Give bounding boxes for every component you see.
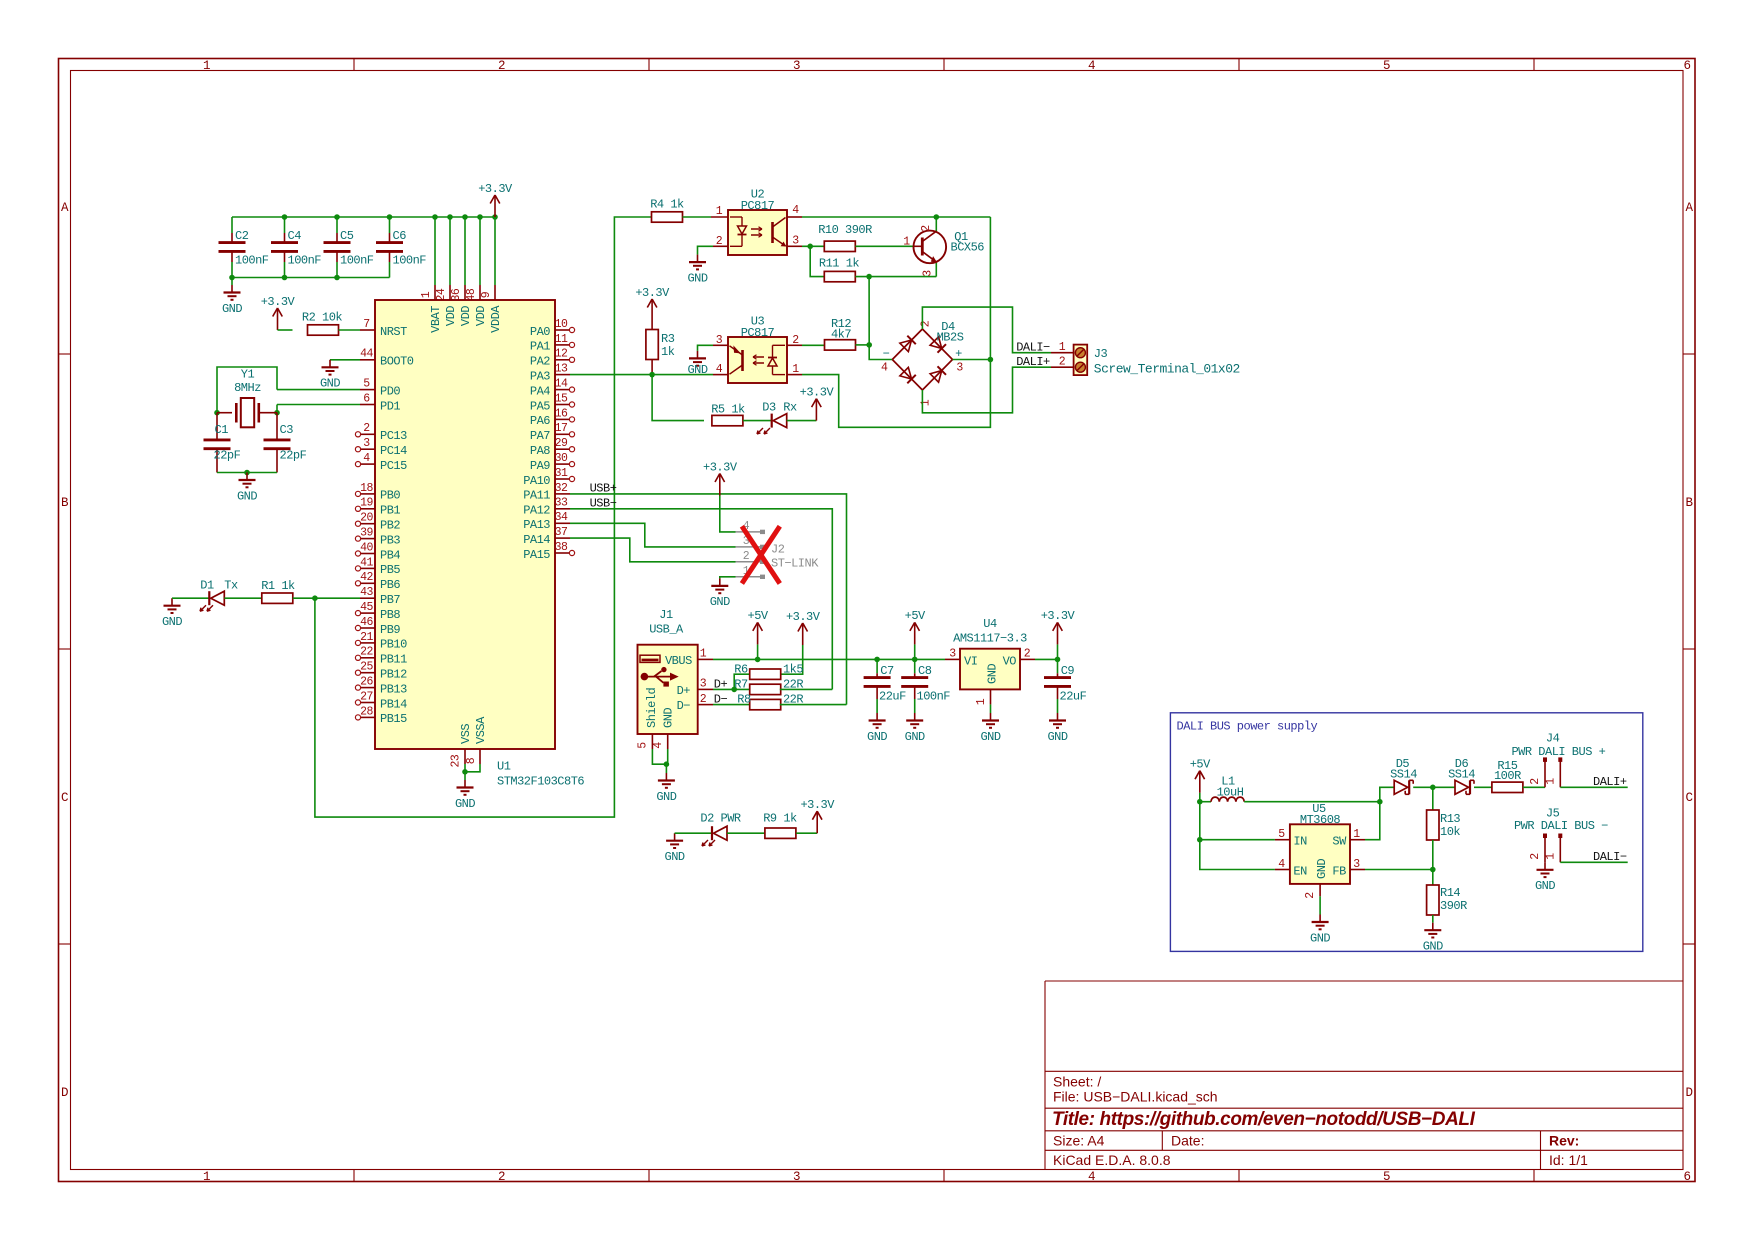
- resistor R6: [750, 669, 781, 679]
- pin 8 VSSA U1: [479, 749, 481, 764]
- pin 40 PB4 U1: [360, 553, 375, 555]
- ground BOOT0: [329, 360, 331, 368]
- wire R1 to PB7: [293, 597, 360, 599]
- svg-text:22pF: 22pF: [280, 449, 307, 463]
- svg-text:DALI+: DALI+: [1016, 355, 1050, 369]
- svg-text:6: 6: [363, 392, 370, 405]
- svg-text:PB3: PB3: [380, 533, 400, 547]
- svg-text:C8: C8: [918, 664, 932, 678]
- svg-text:FB: FB: [1332, 864, 1346, 878]
- svg-text:7: 7: [363, 318, 369, 331]
- svg-text:R7: R7: [734, 677, 748, 691]
- svg-text:Y1: Y1: [241, 367, 255, 381]
- svg-text:R4 1k: R4 1k: [650, 197, 684, 211]
- power +3.3V R3: [651, 321, 653, 330]
- svg-text:D: D: [1685, 1086, 1692, 1100]
- svg-text:PB15: PB15: [380, 712, 407, 726]
- svg-text:3: 3: [716, 334, 723, 347]
- svg-text:+3.3V: +3.3V: [800, 385, 835, 399]
- svg-text:PA14: PA14: [523, 533, 550, 547]
- wire emitter riser: [935, 263, 937, 277]
- svg-text:MB2S: MB2S: [937, 331, 964, 345]
- node Q1 collector rail: [934, 214, 940, 220]
- svg-text:3: 3: [792, 235, 799, 248]
- resistor R4: [652, 212, 683, 222]
- svg-text:USB+: USB+: [590, 481, 617, 495]
- svg-text:GND: GND: [710, 595, 730, 609]
- svg-text:+5V: +5V: [1190, 758, 1211, 772]
- wire bridge pin2 to J3 DALI-: [922, 307, 1051, 353]
- node R12: [866, 342, 872, 348]
- wire PA3: [570, 374, 713, 376]
- svg-text:2: 2: [700, 693, 707, 706]
- svg-text:1k5: 1k5: [783, 663, 803, 677]
- svg-text:KiCad E.D.A. 8.0.8: KiCad E.D.A. 8.0.8: [1053, 1152, 1171, 1168]
- svg-text:DALI−: DALI−: [1593, 850, 1627, 864]
- svg-text:1: 1: [1545, 778, 1558, 785]
- ground U2: [697, 255, 699, 263]
- wire gnd to D1: [172, 597, 209, 599]
- wire D5 to node: [1413, 786, 1433, 788]
- svg-text:U4: U4: [983, 617, 997, 631]
- svg-text:3: 3: [922, 270, 935, 277]
- svg-text:6: 6: [1683, 59, 1690, 73]
- svg-text:43: 43: [360, 586, 373, 599]
- connector J1 USB_A: [698, 658, 713, 660]
- svg-text:B: B: [61, 496, 69, 510]
- capacitor C5: [336, 217, 338, 233]
- svg-text:16: 16: [555, 407, 568, 420]
- power +3.3V D3: [815, 400, 817, 421]
- svg-text:Date:: Date:: [1171, 1133, 1204, 1149]
- svg-text:USB−: USB−: [590, 496, 617, 510]
- svg-text:U1: U1: [497, 759, 511, 773]
- pin 37 PA14 U1: [555, 537, 570, 539]
- svg-text:21: 21: [360, 631, 373, 644]
- svg-text:PA7: PA7: [530, 429, 550, 443]
- svg-text:DALI−: DALI−: [1016, 340, 1050, 354]
- svg-text:10uH: 10uH: [1217, 786, 1244, 800]
- node SW: [1377, 799, 1383, 805]
- node IN: [1197, 837, 1203, 843]
- pin 31 PA10 U1: [555, 478, 570, 480]
- pin 4 PC15 U1: [360, 463, 375, 465]
- capacitor C8: [914, 659, 916, 673]
- svg-text:PA10: PA10: [523, 474, 550, 488]
- graphic box DALI BUS power supply: [1170, 713, 1642, 952]
- svg-text:PB12: PB12: [380, 668, 407, 682]
- ground crystal: [246, 473, 248, 481]
- svg-text:GND: GND: [237, 489, 257, 503]
- wire IN feed: [1200, 802, 1275, 840]
- pin 28 PB15 U1: [360, 716, 375, 718]
- transistor Q1 BCX56: [914, 231, 947, 264]
- wire D6 to R15: [1474, 786, 1492, 788]
- svg-text:R11 1k: R11 1k: [819, 256, 860, 270]
- svg-text:C9: C9: [1061, 664, 1075, 678]
- resistor R11: [824, 271, 855, 281]
- wire VSSA to VSS: [465, 764, 480, 772]
- pin 19 PB1 U1: [360, 508, 375, 510]
- svg-text:J4: J4: [1546, 731, 1560, 745]
- ground C8: [914, 713, 916, 721]
- optocoupler U2 PC817: [711, 216, 728, 218]
- capacitor C9: [1057, 659, 1059, 673]
- svg-text:31: 31: [555, 467, 568, 480]
- svg-text:PA15: PA15: [523, 548, 550, 562]
- ground D1: [171, 598, 173, 606]
- svg-text:3: 3: [700, 678, 707, 691]
- svg-text:SW: SW: [1332, 835, 1347, 849]
- svg-text:J2: J2: [771, 543, 785, 557]
- svg-text:DALI BUS power supply: DALI BUS power supply: [1177, 720, 1318, 734]
- wire +3.3V to J2 pin4: [720, 496, 736, 532]
- node C9: [1055, 657, 1061, 663]
- svg-text:100nF: 100nF: [235, 254, 269, 268]
- wire U2 pin3 to R10: [802, 245, 824, 247]
- node bridge plus: [988, 357, 994, 363]
- wire PD1 to crystal: [276, 405, 278, 413]
- svg-text:1: 1: [420, 291, 433, 298]
- svg-text:GND: GND: [985, 664, 999, 684]
- svg-text:5: 5: [363, 378, 370, 391]
- svg-text:Id: 1/1: Id: 1/1: [1549, 1152, 1588, 1168]
- svg-text:15: 15: [555, 392, 568, 405]
- svg-text:GND: GND: [1310, 931, 1330, 945]
- wire cap bank bottom rail: [232, 277, 390, 279]
- svg-text:R10 390R: R10 390R: [818, 223, 872, 237]
- svg-text:C: C: [61, 791, 68, 805]
- svg-text:GND: GND: [656, 790, 676, 804]
- wire R2 to NRST: [339, 329, 361, 331]
- wire R15 to J4: [1523, 786, 1545, 788]
- svg-text:8: 8: [465, 757, 478, 764]
- svg-text:390R: 390R: [1440, 899, 1467, 913]
- inductor L1 10uH: [1200, 801, 1211, 803]
- svg-text:PB5: PB5: [380, 563, 400, 577]
- svg-text:4: 4: [1088, 59, 1095, 73]
- svg-text:Size: A4: Size: A4: [1053, 1133, 1105, 1149]
- svg-text:C2: C2: [235, 229, 249, 243]
- wire PB7 net to R4 riser: [315, 217, 652, 817]
- svg-text:5: 5: [1383, 59, 1390, 73]
- svg-text:PA5: PA5: [530, 399, 550, 413]
- pin 42 PB6 U1: [360, 582, 375, 584]
- svg-text:VBAT: VBAT: [429, 306, 443, 333]
- wire D+ branch: [713, 688, 751, 690]
- svg-text:2: 2: [920, 320, 933, 327]
- svg-text:2: 2: [1304, 892, 1317, 899]
- pin 27 PB14 U1: [360, 702, 375, 704]
- svg-text:46: 46: [360, 616, 373, 629]
- pin 29 PA8 U1: [555, 448, 570, 450]
- diode D1 Tx: [208, 591, 210, 605]
- wire R8 to USB+: [780, 704, 847, 706]
- svg-text:1: 1: [903, 236, 910, 249]
- power +5V J1: [757, 644, 759, 659]
- svg-text:MT3608: MT3608: [1300, 813, 1341, 827]
- pin 39 PB3 U1: [360, 538, 375, 540]
- svg-text:2: 2: [716, 235, 723, 248]
- svg-text:1: 1: [700, 648, 707, 661]
- svg-text:1: 1: [975, 698, 988, 705]
- svg-text:2: 2: [920, 225, 933, 232]
- svg-text:4: 4: [881, 362, 888, 375]
- svg-text:39: 39: [360, 527, 373, 540]
- pin 41 PB5 U1: [360, 567, 375, 569]
- svg-text:VO: VO: [1003, 654, 1017, 668]
- wire DALI+ out: [1560, 786, 1627, 788]
- svg-text:Shield: Shield: [645, 687, 659, 728]
- svg-text:3: 3: [793, 59, 800, 73]
- svg-text:1: 1: [203, 59, 210, 73]
- wire U4 gnd: [990, 704, 992, 713]
- svg-text:2: 2: [1529, 853, 1542, 860]
- svg-text:38: 38: [555, 541, 568, 554]
- svg-text:3: 3: [956, 362, 963, 375]
- svg-text:GND: GND: [905, 730, 925, 744]
- pin 22 PB11 U1: [360, 657, 375, 659]
- wire U2 pin2 to gnd: [698, 246, 714, 254]
- resistor R14: [1432, 870, 1434, 886]
- pin 13 PA3 U1: [555, 374, 570, 376]
- svg-text:PB7: PB7: [380, 593, 400, 607]
- svg-text:B: B: [1685, 496, 1693, 510]
- svg-text:+5V: +5V: [905, 609, 926, 623]
- power +3.3V top: [494, 196, 496, 217]
- svg-text:42: 42: [360, 571, 373, 584]
- pin 45 PB8 U1: [360, 612, 375, 614]
- svg-text:GND: GND: [980, 730, 1000, 744]
- svg-text:9: 9: [480, 291, 493, 298]
- svg-text:PB14: PB14: [380, 697, 407, 711]
- svg-text:PA1: PA1: [530, 340, 550, 354]
- wire collector riser: [935, 217, 937, 231]
- node D5 R13: [1430, 785, 1436, 791]
- wire U2 pin4 rail: [802, 216, 990, 218]
- svg-text:PB9: PB9: [380, 623, 400, 637]
- svg-text:GND: GND: [665, 850, 685, 864]
- capacitor C3: [276, 413, 278, 440]
- svg-text:PA2: PA2: [530, 355, 550, 369]
- wire VDD feeds: [434, 217, 436, 285]
- svg-text:10k: 10k: [1440, 825, 1460, 839]
- svg-text:PB4: PB4: [380, 548, 400, 562]
- svg-text:2: 2: [792, 334, 799, 347]
- svg-text:R2 10k: R2 10k: [302, 310, 343, 324]
- node PA3 R3: [649, 372, 655, 378]
- svg-text:4: 4: [1278, 858, 1285, 871]
- pin 11 PA1 U1: [555, 344, 570, 346]
- optocoupler U3 PC817: [713, 344, 728, 346]
- svg-text:C3: C3: [280, 423, 294, 437]
- pin 14 PA4 U1: [555, 389, 570, 391]
- ground C9: [1057, 713, 1059, 721]
- svg-text:PA13: PA13: [523, 518, 550, 532]
- node FB: [1430, 867, 1436, 873]
- svg-text:26: 26: [360, 676, 373, 689]
- resistor R10: [824, 241, 855, 251]
- svg-text:GND: GND: [1315, 859, 1329, 879]
- wire J2 pin1 to gnd: [720, 577, 736, 579]
- node crystal left: [214, 410, 220, 416]
- DNP cross J2: [742, 526, 780, 583]
- svg-text:100nF: 100nF: [393, 254, 427, 268]
- pin 16 PA6 U1: [555, 418, 570, 420]
- svg-text:R14: R14: [1440, 886, 1460, 900]
- svg-text:PC13: PC13: [380, 429, 407, 443]
- svg-text:+3.3V: +3.3V: [703, 460, 738, 474]
- bridge diode bottom-right: [930, 366, 946, 382]
- svg-text:GND: GND: [162, 615, 182, 629]
- svg-text:PB1: PB1: [380, 504, 400, 518]
- wire D3 to +3.3V: [787, 420, 817, 422]
- svg-text:32: 32: [555, 482, 568, 495]
- wire J1 shield gnd: [652, 749, 666, 764]
- power +3.3V J2: [719, 475, 721, 496]
- svg-text:EN: EN: [1293, 864, 1307, 878]
- regulator U4 AMS1117-3.3: [945, 658, 960, 660]
- svg-text:3: 3: [793, 1170, 800, 1184]
- svg-text:R13: R13: [1440, 812, 1460, 826]
- node +5V vbus: [755, 657, 761, 663]
- svg-text:3: 3: [1353, 858, 1360, 871]
- svg-text:+3.3V: +3.3V: [786, 610, 821, 624]
- mcu U1 STM32F103C8T6: [375, 300, 555, 749]
- svg-text:SS14: SS14: [1390, 767, 1417, 781]
- svg-text:C: C: [1685, 791, 1692, 805]
- svg-text:VDD: VDD: [474, 306, 488, 326]
- pin 43 PB7 U1: [360, 597, 375, 599]
- svg-text:C4: C4: [288, 229, 302, 243]
- svg-text:28: 28: [360, 705, 373, 718]
- svg-text:4: 4: [652, 742, 665, 749]
- pin 21 PB10 U1: [360, 642, 375, 644]
- resistor R3: [646, 330, 658, 360]
- svg-text:GND: GND: [867, 730, 887, 744]
- capacitor C1: [216, 413, 218, 440]
- svg-text:C1: C1: [215, 423, 229, 437]
- wire FB: [1365, 869, 1433, 871]
- svg-text:33: 33: [555, 497, 568, 510]
- svg-text:Rx: Rx: [783, 400, 797, 414]
- svg-text:100nF: 100nF: [917, 690, 951, 704]
- wire R7 to USB-: [780, 688, 833, 690]
- pin 34 PA13 U1: [555, 522, 570, 524]
- svg-text:45: 45: [360, 601, 373, 614]
- resistor R12: [825, 340, 856, 350]
- svg-text:12: 12: [555, 348, 568, 361]
- resistor R8: [750, 699, 781, 709]
- svg-text:D−: D−: [677, 699, 691, 713]
- capacitor C2: [231, 217, 233, 233]
- svg-text:2: 2: [498, 59, 505, 73]
- svg-text:25: 25: [360, 661, 373, 674]
- wire D- branch: [713, 704, 751, 706]
- svg-text:+: +: [955, 347, 962, 361]
- svg-text:GND: GND: [662, 708, 676, 728]
- svg-text:PD0: PD0: [380, 384, 400, 398]
- svg-text:PA12: PA12: [523, 504, 550, 518]
- svg-text:Title: https://github.com/even: Title: https://github.com/even−notodd/US…: [1052, 1109, 1476, 1130]
- svg-text:GND: GND: [687, 271, 707, 285]
- svg-text:GND: GND: [1047, 730, 1067, 744]
- svg-text:5: 5: [1383, 1170, 1390, 1184]
- pin 12 PA2 U1: [555, 359, 570, 361]
- svg-text:PB10: PB10: [380, 638, 407, 652]
- pin 15 PA5 U1: [555, 404, 570, 406]
- svg-text:41: 41: [360, 556, 373, 569]
- ground U3: [697, 351, 699, 359]
- svg-text:4: 4: [792, 204, 799, 217]
- crystal Y1 8MHz: [217, 412, 232, 414]
- pin 32 PA11 U1: [555, 493, 570, 495]
- svg-text:D2 PWR: D2 PWR: [700, 811, 741, 825]
- pin 20 PB2 U1: [360, 523, 375, 525]
- svg-text:1: 1: [1545, 853, 1558, 860]
- svg-text:PA4: PA4: [530, 384, 550, 398]
- wire SW to node: [1365, 802, 1380, 840]
- svg-text:29: 29: [555, 437, 568, 450]
- wire R4 to U2 pin1: [683, 216, 712, 218]
- wire R11 branch: [810, 246, 823, 276]
- wire +3.3V to R6: [780, 645, 803, 674]
- svg-text:VI: VI: [964, 654, 977, 668]
- svg-text:PA3: PA3: [530, 369, 550, 383]
- svg-text:40: 40: [360, 541, 373, 554]
- wire PD0: [277, 389, 360, 391]
- svg-text:PB11: PB11: [380, 653, 407, 667]
- svg-text:100R: 100R: [1494, 769, 1521, 783]
- resistor R1: [262, 593, 293, 603]
- svg-text:100nF: 100nF: [288, 254, 322, 268]
- pin 6 PD1 U1: [360, 404, 375, 406]
- pin 7 NRST U1: [360, 329, 375, 331]
- svg-text:PD1: PD1: [380, 399, 400, 413]
- svg-text:27: 27: [360, 690, 373, 703]
- node crystal right: [274, 410, 280, 416]
- wire emitter to bridge minus riser: [869, 277, 892, 360]
- bridge diode top-right: [930, 337, 946, 353]
- resistor R2: [308, 325, 339, 335]
- svg-text:GND: GND: [320, 377, 340, 391]
- svg-text:5: 5: [637, 742, 650, 749]
- svg-text:10: 10: [555, 318, 568, 331]
- ground U1 VSS: [464, 772, 466, 780]
- wire gnd to D2: [675, 832, 712, 834]
- wire U3 pin3 to gnd: [698, 345, 714, 351]
- svg-text:Screw_Terminal_01x02: Screw_Terminal_01x02: [1094, 362, 1240, 377]
- svg-text:AMS1117−3.3: AMS1117−3.3: [953, 631, 1027, 645]
- svg-text:PB2: PB2: [380, 519, 400, 533]
- svg-text:37: 37: [555, 526, 568, 539]
- wire D2 to R9: [727, 832, 765, 834]
- svg-text:17: 17: [555, 422, 568, 435]
- svg-text:2: 2: [363, 422, 370, 435]
- diode D6 SS14: [1455, 780, 1469, 794]
- pin 26 PB13 U1: [360, 687, 375, 689]
- svg-text:+3.3V: +3.3V: [261, 295, 296, 309]
- wire bridge pin1 to J3 DALI+: [922, 367, 1051, 413]
- ground R14: [1432, 923, 1434, 931]
- svg-text:GND: GND: [455, 797, 475, 811]
- svg-text:NRST: NRST: [380, 325, 407, 339]
- power +3.3V R2: [277, 309, 279, 330]
- svg-text:BOOT0: BOOT0: [380, 355, 414, 369]
- svg-text:Rev:: Rev:: [1549, 1133, 1579, 1149]
- wire R3 to PA3: [651, 360, 653, 375]
- wire R10 to Q1 base: [855, 245, 913, 247]
